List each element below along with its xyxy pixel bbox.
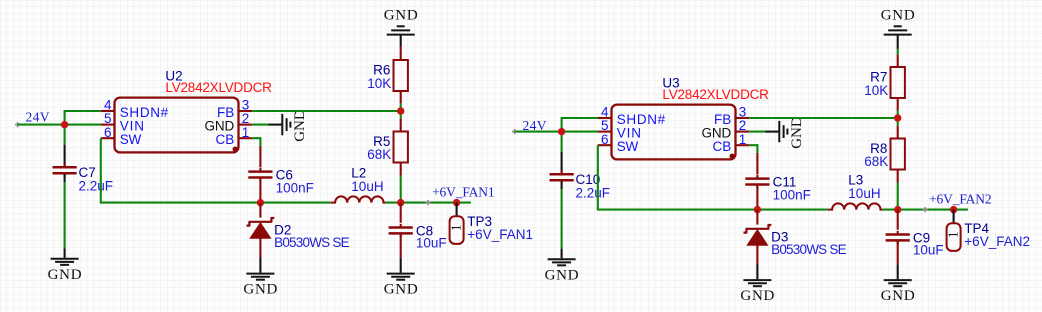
capacitor C9: [897, 210, 899, 230]
wire resistor to output: [897, 183, 899, 210]
ground below C10: [561, 249, 563, 258]
svg-text:GND: GND: [740, 288, 774, 304]
capacitor C10: [561, 152, 563, 174]
ground at pin 2: [778, 121, 780, 142]
wire cap to ground: [561, 189, 563, 249]
svg-text:SW: SW: [617, 139, 639, 154]
svg-text:GND: GND: [292, 109, 308, 142]
svg-text:+6V_FAN2: +6V_FAN2: [964, 234, 1030, 249]
pin 6 SW: [101, 137, 115, 139]
pin 4 SHDN#: [598, 117, 612, 119]
power port 24V (U3 side): [512, 129, 517, 134]
resistor R8: [897, 126, 899, 139]
capacitor C7: [64, 145, 66, 167]
schottky diode D3: [756, 210, 758, 225]
svg-text:GND: GND: [384, 8, 418, 24]
pin 3 FB: [736, 117, 750, 119]
wire FB net: [749, 117, 898, 119]
svg-text:+6V_FAN2: +6V_FAN2: [929, 192, 992, 207]
svg-text:GND: GND: [48, 267, 82, 283]
wire FB net: [252, 110, 401, 112]
junction diode node: [257, 199, 264, 206]
pin 6 SW: [598, 144, 612, 146]
svg-text:CB: CB: [216, 132, 235, 147]
svg-text:6: 6: [601, 132, 609, 147]
ground above R6: [387, 34, 415, 36]
wire branch to SHDN#: [562, 118, 598, 132]
ground at pin 2: [281, 114, 283, 135]
pin 2 GND: [736, 131, 750, 133]
junction FB divider: [894, 114, 901, 121]
junction testpoint: [453, 199, 460, 206]
svg-text:100nF: 100nF: [773, 188, 811, 203]
wire ground to resistor: [897, 35, 899, 49]
resistor R7: [891, 67, 905, 98]
wire branch to SHDN#: [65, 111, 101, 125]
net label +6V_FAN1: [426, 200, 431, 205]
test point TP4: [953, 210, 955, 224]
ground below D3: [756, 264, 758, 279]
svg-text:B0530WS SE: B0530WS SE: [771, 242, 847, 257]
wire down to input cap: [561, 132, 563, 152]
junction 24V node: [558, 128, 565, 135]
svg-text:10uH: 10uH: [848, 186, 880, 201]
pin 4 SHDN#: [101, 110, 115, 112]
wire CB to cap: [252, 138, 260, 146]
test point TP3: [456, 203, 458, 217]
pin 3 FB: [239, 110, 253, 112]
op-amp / regulator IC U2 LV2842XLVDDCR: [115, 98, 239, 153]
capacitor C8: [400, 203, 402, 223]
capacitor C11: [756, 153, 758, 175]
wire SW to inductor: [598, 145, 828, 209]
pin 1 CB: [736, 144, 750, 146]
svg-text:LV2842XLVDDCR: LV2842XLVDDCR: [165, 80, 272, 95]
wire resistor to output: [400, 176, 402, 203]
wire 24V input: [515, 131, 598, 133]
resistor R6: [394, 60, 408, 91]
svg-text:GND: GND: [789, 116, 805, 149]
junction diode node: [754, 206, 761, 213]
svg-text:10K: 10K: [367, 76, 391, 91]
ground below D2: [259, 258, 261, 273]
svg-text:1: 1: [450, 224, 465, 231]
svg-text:SW: SW: [120, 132, 142, 147]
svg-text:GND: GND: [545, 268, 579, 284]
pin 5 VIN: [598, 131, 612, 133]
op-amp / regulator IC U3 LV2842XLVDDCR: [612, 105, 736, 160]
wire down to input cap: [64, 125, 66, 145]
resistor R5: [400, 119, 402, 132]
svg-text:GND: GND: [881, 8, 915, 24]
wire pin2 to ground: [252, 124, 268, 126]
wire 24V input: [18, 124, 101, 126]
inductor L2: [331, 196, 386, 202]
svg-text:2.2uF: 2.2uF: [576, 185, 611, 200]
svg-text:LV2842XLVDDCR: LV2842XLVDDCR: [662, 87, 769, 102]
junction output node: [397, 199, 404, 206]
wire output net: [386, 202, 471, 204]
ground above R7: [884, 34, 912, 36]
wire cap to ground: [64, 182, 66, 249]
svg-text:100nF: 100nF: [276, 181, 314, 196]
ground below C7: [64, 249, 66, 258]
svg-text:68K: 68K: [864, 154, 888, 169]
svg-text:10uF: 10uF: [913, 243, 944, 258]
junction 24V node: [61, 121, 68, 128]
svg-text:CB: CB: [713, 139, 732, 154]
svg-text:GND: GND: [881, 288, 915, 304]
junction testpoint: [950, 206, 957, 213]
inductor L3: [828, 203, 883, 209]
svg-text:68K: 68K: [367, 147, 391, 162]
svg-text:GND: GND: [243, 282, 277, 298]
pin 5 VIN: [101, 124, 115, 126]
svg-text:2.2uF: 2.2uF: [79, 178, 114, 193]
junction output node: [894, 206, 901, 213]
svg-text:6: 6: [104, 125, 112, 140]
svg-text:10uH: 10uH: [351, 179, 383, 194]
wire CB to cap: [749, 145, 757, 153]
schottky diode D2: [259, 203, 261, 218]
pin 2 GND: [239, 124, 253, 126]
svg-text:24V: 24V: [26, 110, 50, 125]
svg-text:+6V_FAN1: +6V_FAN1: [432, 185, 495, 200]
svg-text:10K: 10K: [864, 83, 888, 98]
svg-text:10uF: 10uF: [416, 236, 447, 251]
wire pin2 to ground: [749, 131, 765, 133]
svg-text:1: 1: [947, 231, 962, 238]
net label +6V_FAN2: [923, 207, 928, 212]
wire output net: [883, 209, 968, 211]
svg-text:1: 1: [242, 125, 250, 140]
capacitor C6: [259, 146, 261, 168]
ground below C9: [897, 264, 899, 279]
wire SW to inductor: [101, 138, 331, 202]
ground below C8: [400, 258, 402, 273]
power port 24V (U2 side): [15, 122, 20, 127]
svg-text:+6V_FAN1: +6V_FAN1: [467, 227, 533, 242]
svg-text:1: 1: [739, 132, 747, 147]
pin 1 CB: [239, 137, 253, 139]
svg-text:GND: GND: [384, 282, 418, 298]
svg-text:B0530WS SE: B0530WS SE: [274, 235, 350, 250]
junction FB divider: [397, 107, 404, 114]
